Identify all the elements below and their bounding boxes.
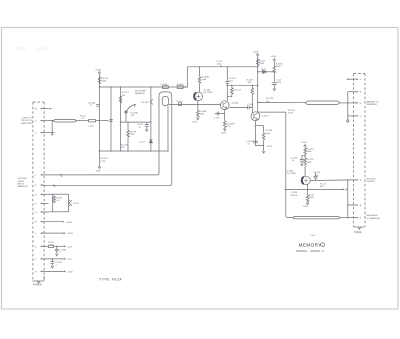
resistor R-123 456K on bus bbox=[256, 59, 265, 66]
svg-text:4.7: 4.7 bbox=[82, 118, 86, 120]
svg-text:-100V: -100V bbox=[302, 206, 308, 208]
svg-text:100K: 100K bbox=[265, 133, 270, 135]
svg-text:C 60: C 60 bbox=[310, 235, 315, 237]
node Q2 base cap bbox=[252, 107, 253, 108]
node rail x111 bbox=[110, 86, 111, 87]
wire grid vertical x111 bbox=[110, 87, 112, 151]
label +TRIG PULSE bbox=[290, 192, 297, 197]
svg-text:C-123: C-123 bbox=[214, 117, 221, 119]
label +100V top of left bus bbox=[95, 69, 102, 71]
bead on loop wire T bbox=[61, 174, 63, 176]
resistor R2-1098 Q1 emitter bbox=[223, 110, 235, 129]
svg-text:456: 456 bbox=[320, 186, 324, 188]
node inner rail right bbox=[150, 121, 151, 122]
wire upper rail y66.8 bbox=[187, 66, 257, 68]
wire grid vertical x150.9 bbox=[150, 87, 152, 151]
node inner rail left bbox=[120, 121, 121, 122]
pin L +100V bbox=[35, 232, 73, 235]
supply +100V on bus top bbox=[252, 52, 259, 56]
pin S bbox=[35, 184, 46, 187]
svg-text:100K: 100K bbox=[307, 151, 312, 153]
svg-text:CABLE: CABLE bbox=[18, 180, 25, 183]
switch contact on x150.9 bbox=[142, 99, 153, 104]
label -12.6V bbox=[266, 146, 273, 148]
node bottom rail x111 bbox=[110, 150, 111, 151]
svg-text:+100V: +100V bbox=[67, 233, 74, 235]
svg-text:C-123A: C-123A bbox=[88, 102, 96, 105]
label TYPE 4S2A bbox=[99, 277, 122, 281]
svg-text:AMPLIFIER: AMPLIFIER bbox=[22, 122, 33, 125]
capacitor C-123 Q1 emitter bypass bbox=[214, 112, 225, 120]
svg-text:J: J bbox=[35, 259, 36, 261]
label R2-126 bbox=[288, 110, 296, 115]
inner cable end racetrack bbox=[162, 96, 168, 105]
wire V2 emitter down bbox=[307, 184, 309, 195]
resistor P-1123 series on rail bbox=[161, 84, 169, 88]
switch contact P-123 bbox=[69, 200, 80, 207]
label -100V under Q1 bbox=[221, 133, 227, 135]
svg-text:-12.6V: -12.6V bbox=[266, 146, 273, 148]
potentiometer R2-123A rect bal bbox=[124, 104, 138, 117]
svg-text:D: D bbox=[360, 103, 362, 105]
svg-text:P-123: P-123 bbox=[73, 203, 79, 205]
ground stub below U bbox=[51, 134, 54, 136]
diode D-127 on x150.9 bbox=[139, 140, 152, 144]
svg-text:22: 22 bbox=[139, 127, 142, 129]
pin B bbox=[353, 179, 361, 182]
ghost smudge 2 bbox=[36, 47, 47, 51]
node V1 bottom junction bbox=[197, 104, 199, 106]
node bypass tap bbox=[304, 155, 305, 156]
node rail C4 bbox=[227, 66, 228, 67]
svg-text:C: C bbox=[360, 116, 362, 118]
coax W3 racetrack feedback bbox=[293, 216, 341, 219]
svg-text:RC-12: RC-12 bbox=[177, 101, 184, 103]
label CONN. TO FRONT DC AMPLIFIER bbox=[22, 118, 33, 125]
resistor R-1127 to Q2 base bbox=[247, 79, 255, 113]
series component RC-12 on signal bbox=[177, 101, 184, 106]
node bottom rail x120.5 bbox=[120, 150, 121, 151]
pin M +300V bbox=[35, 221, 73, 224]
resistor R2-123 100K upper bbox=[304, 147, 314, 157]
pin N bbox=[35, 211, 53, 214]
svg-text:-100V: -100V bbox=[67, 272, 73, 274]
capacitor C-12 1000 bbox=[272, 80, 282, 91]
node left bus / signal wire bbox=[99, 120, 101, 122]
resistor R-2108 bbox=[262, 126, 273, 146]
label FROM DC OFFSET bbox=[366, 178, 376, 183]
svg-text:SAMPLER: SAMPLER bbox=[18, 185, 28, 188]
node signal x111 bbox=[110, 120, 111, 121]
capacitor tick on x111 at signal bbox=[109, 120, 112, 122]
svg-text:100: 100 bbox=[122, 95, 126, 97]
inner cable wire bbox=[167, 106, 169, 151]
node rail x120.5 bbox=[120, 86, 121, 87]
svg-text:P: P bbox=[35, 203, 37, 205]
wire pin V to pin U vertical bbox=[51, 121, 53, 135]
node bus mid rail bbox=[257, 85, 259, 87]
node bus upper rail bbox=[257, 66, 259, 68]
svg-text:2.2M: 2.2M bbox=[129, 134, 134, 136]
resistor R-1 123 bbox=[227, 85, 241, 96]
svg-text:+300V: +300V bbox=[66, 222, 73, 224]
coax W1 delay line racetrack bbox=[53, 119, 76, 122]
resistor R2-123 100K on left bus bbox=[98, 77, 109, 84]
label POWER under strip bbox=[33, 285, 42, 287]
supply arrow -100V under R5-12 bbox=[306, 203, 309, 205]
label STAGE 4 under strip bbox=[354, 231, 362, 234]
svg-text:R-123A: R-123A bbox=[202, 75, 210, 78]
resistor R-123A above V1 bbox=[198, 67, 209, 92]
diode V2 to tube bbox=[287, 170, 311, 184]
title MEMORY bbox=[299, 243, 322, 248]
node diode R-1456 bbox=[274, 71, 275, 72]
label MANUAL TO SWEEPER bbox=[366, 100, 378, 106]
svg-text:560K: 560K bbox=[199, 114, 204, 116]
node bus diode wire bbox=[257, 71, 259, 73]
capacitor C-1234 on pin K bbox=[55, 246, 67, 256]
pin F out arrow bbox=[346, 78, 361, 81]
svg-text:100K: 100K bbox=[202, 79, 207, 81]
node crossover x347.8 bbox=[347, 102, 349, 104]
wire coax feed y102.5 bbox=[258, 102, 306, 104]
wire bottom rail y151 bbox=[99, 150, 168, 152]
node rail R-123A bbox=[199, 66, 200, 67]
svg-text:100: 100 bbox=[248, 82, 252, 84]
subtitle SERIES MODEL bbox=[296, 249, 324, 253]
label FEEDBACK TO SAMPLER bbox=[366, 214, 380, 220]
label C-60 bbox=[310, 235, 315, 237]
svg-text:SWEEPER: SWEEPER bbox=[366, 104, 377, 106]
svg-text:+100V: +100V bbox=[95, 69, 102, 71]
svg-text:2.2M: 2.2M bbox=[101, 161, 106, 163]
svg-text:T: T bbox=[35, 175, 37, 177]
wire Q2 emitter down bbox=[254, 121, 256, 146]
svg-text:10.6K: 10.6K bbox=[288, 112, 294, 114]
svg-text:U: U bbox=[35, 133, 37, 135]
label RC-123 456 bbox=[266, 98, 274, 103]
wire emitter join bbox=[255, 146, 263, 152]
wire trig pulse line bbox=[285, 188, 343, 190]
supply arrow -12.6V bbox=[262, 151, 265, 153]
capacitor C-1403 on emitter bbox=[246, 141, 258, 146]
label -100V under R-1098 bbox=[191, 121, 197, 123]
svg-text:H: H bbox=[35, 271, 37, 273]
svg-text:D-127: D-127 bbox=[139, 142, 146, 144]
terminal circle below E line bbox=[347, 120, 349, 122]
resistor R-1098 560K bbox=[197, 110, 208, 118]
svg-text:1000: 1000 bbox=[276, 82, 281, 84]
svg-text:F: F bbox=[360, 79, 362, 81]
svg-text:V: V bbox=[35, 121, 37, 123]
svg-text:C-123: C-123 bbox=[247, 104, 254, 106]
svg-text:TO SAMPLER: TO SAMPLER bbox=[366, 217, 380, 220]
node pin A tap bbox=[347, 204, 348, 205]
connector J2 right strip dashed outline bbox=[354, 74, 365, 228]
svg-text:R2-125: R2-125 bbox=[142, 102, 150, 104]
supply arrow -100V under R-1098 bbox=[197, 118, 200, 120]
svg-text:B: B bbox=[360, 180, 362, 182]
pin A bbox=[348, 204, 362, 207]
capacitor C-123 coupling Q1 Q2 bbox=[229, 104, 254, 110]
node left bus / bottom rail bbox=[99, 150, 101, 152]
node bus coax wire bbox=[257, 102, 259, 104]
svg-text:-100V: -100V bbox=[221, 133, 227, 135]
wire pin strip vertical x347.8 low bbox=[347, 180, 349, 218]
svg-text:POWER: POWER bbox=[33, 285, 42, 287]
svg-text:100: 100 bbox=[121, 147, 125, 149]
pin C bbox=[348, 115, 362, 118]
node left bus / top rail bbox=[99, 86, 101, 88]
wire top rail y87 bbox=[99, 86, 187, 88]
pin D bbox=[353, 102, 361, 105]
supply arrow +100V lower right bbox=[301, 142, 308, 147]
wire R2-12 to grid bbox=[96, 120, 109, 122]
svg-text:C-123: C-123 bbox=[88, 126, 95, 128]
node V junction bbox=[51, 120, 53, 122]
svg-text:A: A bbox=[360, 204, 362, 207]
node bottom rail x150.9 bbox=[150, 150, 151, 151]
wire strip bottom stub bbox=[43, 276, 45, 281]
wire coax to R2-12 bbox=[76, 120, 88, 122]
node U junction bbox=[51, 132, 53, 134]
svg-text:.1: .1 bbox=[59, 252, 62, 254]
svg-text:R-123A: R-123A bbox=[131, 111, 139, 114]
wire coax3 to pin Z bbox=[340, 217, 356, 219]
resistor R2-123 100 on x120.5 bbox=[119, 92, 129, 103]
svg-text:.1: .1 bbox=[55, 265, 58, 267]
relay box K1 bbox=[52, 194, 69, 212]
svg-text:4.7K: 4.7K bbox=[226, 126, 231, 128]
label RC-12 456 bbox=[320, 183, 327, 188]
wire coax to pin D bbox=[340, 102, 354, 104]
capacitor C-123 22 bbox=[137, 122, 149, 131]
svg-text:K: K bbox=[35, 246, 37, 248]
diode V1 HF trim bbox=[194, 90, 212, 101]
svg-text:E: E bbox=[360, 92, 362, 94]
svg-text:PULSE: PULSE bbox=[290, 195, 297, 197]
svg-text:OFFSET: OFFSET bbox=[366, 181, 375, 183]
svg-text:.005: .005 bbox=[314, 175, 319, 177]
svg-text:456K: 456K bbox=[259, 63, 264, 65]
svg-text:100K: 100K bbox=[309, 197, 314, 199]
capacitor C4-123 on Q1 collector bbox=[225, 67, 236, 101]
svg-text:R: R bbox=[35, 194, 37, 196]
node coax3 x347.8 bbox=[347, 217, 349, 219]
svg-text:1-16: 1-16 bbox=[55, 200, 60, 202]
svg-text:100K: 100K bbox=[307, 162, 312, 164]
supply arrow +100V bbox=[98, 72, 101, 74]
svg-text:R-1250: R-1250 bbox=[177, 84, 185, 86]
label R2-123 2.2M lower left bus bbox=[101, 158, 109, 163]
pin Z bbox=[356, 217, 361, 220]
pin H -100V bbox=[35, 270, 73, 273]
capacitor C-1234 bypass bbox=[290, 156, 305, 166]
wire V2 to pin B bbox=[310, 179, 353, 182]
node mid rail left bbox=[227, 85, 228, 86]
pin R bbox=[35, 193, 53, 196]
transistor Q1 bbox=[220, 101, 239, 110]
node pot bottom bbox=[125, 121, 126, 122]
svg-text:STAGE: STAGE bbox=[354, 231, 362, 234]
svg-text:R-1 123: R-1 123 bbox=[233, 89, 241, 91]
wire grid vertical x120.5 bbox=[120, 87, 122, 151]
svg-text:+100V: +100V bbox=[270, 56, 277, 58]
label -100V lower right bbox=[302, 206, 308, 208]
pin P bbox=[35, 202, 48, 205]
svg-text:100K: 100K bbox=[101, 80, 106, 82]
capacitor C-123 1000 label on upper rail bbox=[216, 61, 223, 67]
wire inner rail y122.1 bbox=[121, 121, 151, 123]
node pin C tap bbox=[347, 115, 348, 116]
ghost smudge 1 bbox=[16, 47, 26, 51]
svg-text:-100V: -100V bbox=[95, 171, 101, 173]
wire pot drop bbox=[125, 114, 127, 123]
svg-text:+100V: +100V bbox=[252, 52, 259, 54]
node V2 trig junction bbox=[307, 189, 309, 191]
capacitor C5-123 bbox=[313, 172, 321, 180]
pin T bbox=[35, 174, 46, 177]
svg-text:+100V: +100V bbox=[301, 142, 308, 144]
supply arrow -100V bottom of left bus bbox=[98, 167, 101, 169]
wire pin E down x347.8 bbox=[347, 92, 349, 120]
pin K +12V bbox=[35, 242, 73, 248]
supply arrow +100V right bbox=[270, 56, 277, 66]
pin J -12V bbox=[35, 258, 72, 261]
svg-text:L: L bbox=[35, 233, 37, 235]
svg-text:.001: .001 bbox=[229, 80, 234, 82]
svg-text:Q-1234: Q-1234 bbox=[231, 102, 239, 104]
connector J1 left strip dashed outline bbox=[33, 102, 44, 281]
wire signal y104.6 to Q1 base bbox=[168, 104, 220, 106]
arrow trig out bbox=[343, 188, 345, 190]
svg-text:.01: .01 bbox=[292, 160, 296, 162]
svg-text:TO TUBE: TO TUBE bbox=[287, 173, 297, 175]
supply arrow -100V under Q1 bbox=[223, 129, 226, 131]
resistor R5-12 100K bbox=[306, 195, 315, 203]
resistor R2-124 100K lower bbox=[304, 158, 314, 177]
svg-text:BALANCE: BALANCE bbox=[135, 92, 145, 95]
node mid rail R-1127 bbox=[252, 85, 253, 86]
svg-text:M: M bbox=[35, 222, 37, 224]
svg-text:S: S bbox=[35, 185, 37, 187]
svg-text:SERIES - MODEL 4: SERIES - MODEL 4 bbox=[296, 249, 324, 253]
capacitor C-123A on main bus bbox=[88, 102, 99, 108]
svg-text:MEMORY: MEMORY bbox=[299, 243, 322, 248]
node wire at x347.8 bbox=[347, 179, 349, 181]
node R-1 123 top bbox=[231, 85, 232, 86]
pin V signal input bbox=[35, 120, 54, 123]
transistor Q2 bbox=[251, 112, 269, 121]
pin U bbox=[35, 132, 55, 135]
label R2-123 100 above bottom rail bbox=[121, 144, 129, 149]
wire mid rail y85.3 bbox=[227, 84, 257, 86]
svg-text:1000: 1000 bbox=[217, 63, 222, 65]
label left of pins T S bbox=[18, 178, 28, 188]
label -100V bbox=[95, 171, 101, 173]
svg-text:47: 47 bbox=[90, 105, 93, 107]
bead on loop wire S bbox=[54, 184, 56, 186]
svg-text:2.2M: 2.2M bbox=[276, 66, 281, 68]
svg-text:.01: .01 bbox=[247, 144, 251, 146]
pin W bbox=[35, 108, 52, 111]
resistor R-1250 series on rail bbox=[177, 84, 185, 88]
svg-text:D-45: D-45 bbox=[261, 68, 266, 70]
tick before vertical bbox=[345, 188, 347, 190]
svg-text:Z: Z bbox=[360, 218, 362, 220]
label RECTIFIER BALANCE bbox=[135, 90, 146, 95]
svg-text:FEEDBACK: FEEDBACK bbox=[366, 214, 378, 217]
node tap bbox=[255, 125, 256, 126]
capacitor C-1235 on pin J bbox=[50, 258, 62, 268]
svg-text:Q-1097: Q-1097 bbox=[262, 115, 270, 117]
svg-text:-100V: -100V bbox=[191, 121, 197, 123]
resistor R2-123 2.2M inner bbox=[127, 122, 137, 151]
svg-text:+12V: +12V bbox=[67, 246, 73, 248]
resistor R-1456 bbox=[273, 64, 283, 83]
svg-text:MANUAL TO: MANUAL TO bbox=[366, 100, 378, 103]
shield loop cable left pair bbox=[46, 92, 172, 186]
svg-text:-12V: -12V bbox=[67, 259, 72, 261]
wire emitter tap y125.6 bbox=[255, 125, 263, 127]
feedback bus vertical x285.8 bbox=[286, 112, 293, 218]
coax W2 racetrack bbox=[305, 101, 340, 104]
node trig left end bbox=[285, 189, 287, 191]
diode D-45 bbox=[258, 68, 275, 73]
wire V1 to base node bbox=[197, 101, 199, 111]
node rail x150.9 bbox=[150, 86, 151, 87]
wire rail corner up to upper rail bbox=[183, 67, 187, 87]
wire left bus vertical 99.4 bbox=[98, 74, 100, 167]
resistor R2-12 series bbox=[80, 116, 96, 128]
bus vertical x257.7 bbox=[257, 56, 259, 112]
wire Q2 collector to feedback bus bbox=[258, 111, 286, 113]
svg-text:TYPE 4S2A: TYPE 4S2A bbox=[99, 277, 122, 281]
svg-text:P-1123: P-1123 bbox=[161, 84, 168, 86]
node r2 bottom bbox=[127, 150, 128, 151]
title circle number bbox=[321, 243, 325, 247]
svg-text:10K: 10K bbox=[131, 115, 135, 117]
svg-text:HF TRIM: HF TRIM bbox=[204, 92, 213, 94]
pin E bbox=[348, 91, 362, 94]
svg-text:N: N bbox=[35, 212, 37, 214]
svg-text:W: W bbox=[35, 109, 37, 111]
